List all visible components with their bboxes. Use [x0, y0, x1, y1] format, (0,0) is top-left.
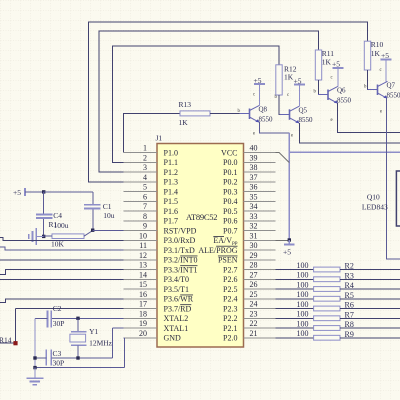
svg-text:35: 35: [250, 192, 258, 201]
junction gnd rail: [33, 366, 36, 369]
svg-text:28: 28: [250, 261, 258, 270]
pin 22: [223, 319, 275, 333]
svg-text:8550: 8550: [299, 116, 314, 124]
svg-text:Q5: Q5: [299, 107, 308, 115]
pin 14 P3.4: [123, 270, 189, 284]
wire Q5 emitter run: [300, 123, 400, 143]
svg-text:P1.6: P1.6: [164, 207, 178, 216]
pin 31: [213, 231, 275, 246]
junction Y1 bottom: [76, 356, 79, 359]
svg-text:100u: 100u: [54, 221, 69, 230]
pin 38: [223, 163, 275, 177]
junction +5/C4: [42, 190, 45, 193]
resistor R4 100: [276, 280, 400, 291]
svg-text:R4: R4: [345, 281, 354, 290]
svg-text:P1.2: P1.2: [164, 168, 178, 177]
svg-text:8550: 8550: [337, 96, 352, 104]
wire Y1 top stem: [77, 318, 79, 331]
svg-text:8550: 8550: [387, 91, 400, 99]
pin 35: [223, 192, 275, 206]
svg-text:31: 31: [250, 231, 258, 240]
junction C1/RST: [91, 229, 94, 232]
wire R13 to Q8 base: [210, 112, 250, 114]
transistor Q7 8550: [364, 68, 400, 115]
power +5 (EA/VCC rail): [283, 240, 295, 257]
svg-text:P2.7: P2.7: [223, 265, 237, 274]
svg-text:P3.4/T0: P3.4/T0: [164, 275, 190, 284]
wire +5 rail vertical: [288, 133, 290, 240]
wire VCC pin40 jog: [276, 153, 290, 163]
wire P3.4 row: [0, 278, 123, 280]
ground (RST, rotated): [29, 228, 44, 245]
svg-text:100: 100: [297, 261, 309, 270]
svg-text:P3.7/RD: P3.7/RD: [164, 304, 192, 313]
wire C4 bottom: [43, 219, 45, 237]
pin 25: [223, 290, 275, 304]
wire XTAL1 drop: [112, 328, 114, 358]
svg-text:R7: R7: [345, 310, 354, 319]
wire GND pin drop: [124, 338, 126, 368]
pin 3 P1.2: [123, 163, 178, 177]
wire P3.3 row: [0, 270, 123, 275]
svg-text:P0.6: P0.6: [223, 217, 237, 226]
svg-text:20: 20: [139, 329, 147, 338]
svg-text:16: 16: [139, 290, 147, 299]
pin 34: [223, 202, 275, 216]
resistor R8 100: [276, 319, 400, 330]
wire Q8 emitter run: [260, 122, 290, 133]
capacitor C2 30P: [48, 304, 65, 328]
svg-text:3: 3: [143, 163, 147, 172]
wire P3.7 down to R14: [15, 309, 17, 344]
resistor R10 1K: [364, 40, 383, 70]
svg-text:P1.4: P1.4: [164, 187, 178, 196]
svg-text:P2.0: P2.0: [223, 334, 237, 343]
svg-text:100: 100: [297, 290, 309, 299]
svg-text:XTAL2: XTAL2: [164, 314, 189, 323]
wire down to C4: [43, 192, 45, 214]
pin 30: [198, 241, 275, 255]
svg-text:P3.2/INT0: P3.2/INT0: [164, 256, 198, 265]
svg-text:12: 12: [139, 251, 147, 260]
svg-text:Y1: Y1: [89, 327, 98, 336]
wire R10 to Q7 base: [368, 70, 378, 90]
svg-text:P1.0: P1.0: [164, 148, 178, 157]
svg-text:P0.7: P0.7: [223, 226, 237, 235]
pin 15 P3.5: [123, 280, 189, 294]
svg-text:10u: 10u: [103, 211, 115, 220]
svg-text:R8: R8: [345, 320, 354, 329]
wire R12 to Q5 base: [279, 95, 290, 114]
power +5: [294, 77, 306, 107]
wire C3 left: [35, 357, 46, 359]
resistor R7 100: [276, 310, 400, 321]
svg-text:LED843: LED843: [362, 202, 388, 211]
svg-text:P1.1: P1.1: [164, 158, 178, 167]
pin 11 P3.1: [123, 241, 195, 255]
junction Y1 top: [76, 317, 79, 320]
wire P3.2 row: [0, 259, 123, 261]
svg-text:+5: +5: [294, 77, 302, 86]
svg-text:P0.5: P0.5: [223, 207, 237, 216]
wire down to C1: [92, 192, 94, 205]
svg-text:13: 13: [139, 261, 147, 270]
wire RST to pin9: [93, 230, 124, 232]
pin 9 RST: [123, 222, 196, 236]
pin 1 P1.0: [123, 144, 178, 158]
junction C4/gnd/R: [42, 235, 45, 238]
resistor R2 100: [276, 261, 400, 272]
wire net P1.2 to R11: [99, 31, 319, 172]
resistor R9 100: [276, 329, 400, 340]
pin 7 P1.6: [123, 202, 178, 216]
resistor R3 100: [276, 271, 400, 282]
svg-text:Q6: Q6: [337, 87, 346, 95]
svg-text:J1: J1: [156, 134, 163, 143]
capacitor C3 30P: [46, 349, 64, 368]
svg-text:Q7: Q7: [387, 82, 396, 90]
pin 20 GND: [123, 329, 181, 343]
svg-text:XTAL1: XTAL1: [164, 324, 189, 333]
pin 29: [218, 251, 276, 265]
svg-text:38: 38: [250, 163, 258, 172]
wire R14 row: [0, 342, 16, 344]
wire C3-Y1 row: [51, 357, 112, 359]
wire R11 to Q6 base: [319, 80, 329, 95]
wire R 10K to RST diagonal: [84, 231, 93, 237]
svg-text:GND: GND: [164, 334, 182, 343]
svg-text:30: 30: [250, 241, 258, 250]
svg-text:1K: 1K: [371, 49, 381, 58]
wire net P1.1 to R12: [113, 46, 280, 162]
pin 2 P1.1: [123, 153, 178, 167]
power +5: [332, 60, 344, 87]
pin 4 P1.3: [123, 173, 178, 187]
wire C1 bottom: [92, 209, 94, 230]
svg-text:33: 33: [250, 212, 258, 221]
pin 21: [223, 329, 275, 343]
wire P3.0 row: [0, 237, 123, 240]
svg-text:P1.7: P1.7: [164, 217, 178, 226]
svg-text:P1.3: P1.3: [164, 178, 178, 187]
svg-text:P2.3: P2.3: [223, 304, 237, 313]
svg-text:10: 10: [139, 231, 147, 240]
svg-text:30P: 30P: [53, 319, 65, 328]
svg-text:C2: C2: [53, 304, 62, 313]
svg-text:11: 11: [139, 241, 147, 250]
svg-text:39: 39: [250, 153, 258, 162]
svg-text:2: 2: [143, 153, 147, 162]
wire P3.1 row: [0, 247, 123, 250]
svg-text:c: c: [287, 93, 289, 98]
wire EA pin31 ext: [276, 239, 290, 241]
svg-text:R6: R6: [345, 301, 354, 310]
svg-text:6: 6: [143, 192, 147, 201]
capacitor C4 100u: [36, 211, 62, 220]
wire net P1.3 to R10: [88, 22, 367, 182]
pin 8 P1.7: [123, 212, 178, 226]
pin 28: [223, 261, 275, 275]
svg-text:21: 21: [250, 329, 258, 338]
svg-text:29: 29: [250, 251, 258, 260]
svg-text:+5: +5: [332, 60, 340, 69]
capacitor C1 10u: [84, 202, 115, 220]
pin 24: [223, 300, 275, 314]
resistor R11 1K: [315, 49, 334, 80]
svg-text:AT89C52: AT89C52: [186, 212, 218, 222]
svg-text:P2.4: P2.4: [223, 295, 237, 304]
resistor R5 100: [276, 290, 400, 301]
svg-text:25: 25: [250, 290, 258, 299]
svg-text:R3: R3: [345, 271, 354, 280]
svg-text:8550: 8550: [259, 115, 274, 123]
power +5 (RST): [13, 188, 25, 197]
svg-text:c: c: [253, 93, 255, 98]
junction +5 rail / EA: [288, 238, 291, 241]
pin 27: [223, 270, 275, 284]
wire P3.7 row: [16, 308, 124, 310]
pin 40: [221, 144, 275, 158]
svg-text:30P: 30P: [53, 359, 65, 368]
wire net P1.0 to R13: [123, 113, 180, 152]
svg-text:R10: R10: [371, 40, 384, 49]
svg-text:P3.3/INT1: P3.3/INT1: [164, 265, 198, 274]
svg-text:100: 100: [297, 319, 309, 328]
svg-text:e: e: [331, 118, 333, 123]
svg-text:10K: 10K: [51, 240, 65, 249]
svg-text:4: 4: [143, 173, 147, 182]
svg-text:100: 100: [297, 329, 309, 338]
svg-text:100: 100: [297, 310, 309, 319]
svg-text:1: 1: [143, 144, 147, 153]
svg-text:VCC: VCC: [221, 148, 237, 157]
svg-text:P0.0: P0.0: [223, 158, 237, 167]
wire Q6 emitter run: [338, 103, 400, 133]
pin 18 XTAL2: [123, 309, 188, 323]
svg-text:P1.5: P1.5: [164, 197, 178, 206]
svg-text:P3.6/WR: P3.6/WR: [164, 295, 194, 304]
wire gnd junction to R: [44, 235, 52, 237]
svg-text:P2.2: P2.2: [223, 314, 237, 323]
pin 12 P3.2: [123, 251, 197, 265]
wire Q7 emitter run: [387, 98, 400, 259]
resistor R13 1K: [179, 100, 211, 127]
transistor Q8 8550: [238, 93, 274, 137]
svg-text:1K: 1K: [179, 118, 189, 127]
wire gnd rail: [34, 318, 36, 367]
svg-text:P2.5: P2.5: [223, 285, 237, 294]
svg-text:27: 27: [250, 270, 258, 279]
wire +5 to junction: [25, 191, 44, 193]
pin 23: [223, 309, 275, 323]
wire GND pin row: [123, 337, 124, 339]
svg-text:P3.5/T1: P3.5/T1: [164, 285, 190, 294]
svg-text:C1: C1: [103, 202, 112, 211]
svg-text:ALE/PROG: ALE/PROG: [198, 246, 237, 255]
svg-text:PSEN: PSEN: [218, 256, 238, 265]
svg-text:+5: +5: [283, 248, 291, 257]
svg-text:9: 9: [143, 222, 147, 231]
wire Y1 bottom stem: [77, 345, 79, 358]
svg-text:P0.1: P0.1: [223, 168, 237, 177]
wire LED row net: [289, 151, 400, 153]
pin 16 P3.6: [123, 290, 193, 304]
resistor R1 10K: [51, 234, 84, 249]
svg-text:36: 36: [250, 183, 258, 192]
svg-text:23: 23: [250, 309, 258, 318]
svg-text:c: c: [331, 76, 333, 81]
resistor R12 1K: [276, 65, 297, 96]
svg-text:14: 14: [139, 270, 147, 279]
svg-text:P3.1/TxD: P3.1/TxD: [164, 246, 196, 255]
wire P3.6 row: [0, 299, 123, 303]
pin 37: [223, 173, 275, 187]
pin 26: [223, 280, 275, 294]
svg-text:100: 100: [297, 280, 309, 289]
svg-text:8: 8: [143, 212, 147, 221]
svg-text:e: e: [253, 132, 255, 137]
svg-text:12MHz: 12MHz: [89, 339, 113, 348]
svg-text:37: 37: [250, 173, 258, 182]
junction R14 (red): [13, 341, 17, 345]
svg-text:19: 19: [139, 319, 147, 328]
svg-text:15: 15: [139, 280, 147, 289]
svg-text:P2.1: P2.1: [223, 324, 237, 333]
wire XTAL1 row: [113, 327, 124, 329]
wire C2 left: [35, 317, 48, 319]
svg-text:C4: C4: [53, 211, 62, 220]
svg-text:P3.0/RxD: P3.0/RxD: [164, 236, 196, 245]
svg-text:7: 7: [143, 202, 147, 211]
svg-text:e: e: [380, 110, 382, 115]
svg-text:P0.2: P0.2: [223, 178, 237, 187]
svg-text:40: 40: [250, 144, 258, 153]
svg-text:100: 100: [297, 271, 309, 280]
svg-text:R5: R5: [345, 291, 354, 300]
svg-text:Q10: Q10: [367, 192, 380, 201]
svg-text:+5: +5: [381, 51, 389, 60]
pin 5 P1.4: [123, 183, 178, 197]
pin 6 P1.5: [123, 192, 178, 206]
power +5: [381, 51, 392, 82]
svg-text:100: 100: [297, 300, 309, 309]
pin 17 P3.7: [123, 300, 191, 314]
resistor R6 100: [276, 300, 400, 311]
pin 10 P3.0: [123, 231, 195, 245]
svg-text:P0.3: P0.3: [223, 187, 237, 196]
svg-text:R2: R2: [345, 262, 354, 271]
svg-text:P2.6: P2.6: [223, 275, 237, 284]
pin 36: [223, 183, 275, 197]
svg-text:24: 24: [250, 300, 258, 309]
svg-text:RST/VPD: RST/VPD: [164, 226, 197, 235]
svg-text:5: 5: [143, 183, 147, 192]
svg-text:1K: 1K: [322, 58, 332, 67]
transistor Q5 8550: [275, 93, 314, 139]
LED module Q10 LED843 box: [396, 171, 400, 226]
junction C3/rail: [33, 356, 36, 359]
svg-text:22: 22: [250, 319, 258, 328]
wire XTAL2 row: [51, 317, 123, 319]
svg-text:34: 34: [250, 202, 258, 211]
pin 13 P3.3: [123, 261, 197, 275]
svg-text:+5: +5: [13, 188, 21, 197]
pin 32: [223, 222, 275, 236]
ground (crystal): [27, 368, 44, 385]
svg-text:R9: R9: [345, 330, 354, 339]
svg-text:C3: C3: [53, 349, 62, 358]
svg-text:1K: 1K: [284, 73, 294, 82]
pin 33: [223, 212, 275, 226]
wire +5 row: [44, 191, 93, 193]
pin 19 XTAL1: [123, 319, 188, 333]
svg-text:+5: +5: [254, 76, 262, 85]
wire gnd row: [35, 367, 125, 369]
svg-text:18: 18: [139, 309, 147, 318]
svg-text:R13: R13: [179, 100, 192, 109]
IC U1 AT89C52 body: [157, 144, 244, 348]
svg-text:Q8: Q8: [259, 106, 268, 114]
crystal Y1 12MHz: [70, 327, 113, 348]
pin 39: [223, 153, 275, 167]
power +5: [254, 76, 266, 106]
svg-text:32: 32: [250, 222, 258, 231]
svg-text:e: e: [291, 134, 293, 139]
svg-text:P0.4: P0.4: [223, 197, 237, 206]
transistor Q6 8550: [314, 76, 352, 124]
svg-text:c: c: [380, 68, 382, 73]
svg-text:17: 17: [139, 300, 147, 309]
svg-text:26: 26: [250, 280, 258, 289]
